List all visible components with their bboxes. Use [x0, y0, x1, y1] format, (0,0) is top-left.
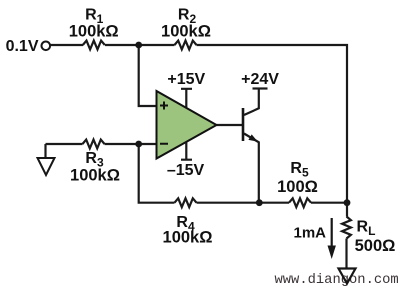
- svg-text:–15V: –15V: [167, 162, 205, 179]
- svg-text:500Ω: 500Ω: [355, 237, 396, 255]
- svg-text:1mA: 1mA: [293, 225, 326, 242]
- svg-text:+24V: +24V: [241, 71, 279, 88]
- svg-text:100kΩ: 100kΩ: [69, 23, 119, 41]
- svg-text:www.diangon.com: www.diangon.com: [275, 272, 399, 288]
- svg-text:100kΩ: 100kΩ: [70, 167, 120, 185]
- svg-text:+15V: +15V: [167, 71, 205, 88]
- svg-text:100kΩ: 100kΩ: [163, 229, 213, 247]
- svg-text:0.1V: 0.1V: [6, 38, 39, 55]
- svg-text:100Ω: 100Ω: [277, 178, 318, 196]
- svg-text:100kΩ: 100kΩ: [161, 23, 211, 41]
